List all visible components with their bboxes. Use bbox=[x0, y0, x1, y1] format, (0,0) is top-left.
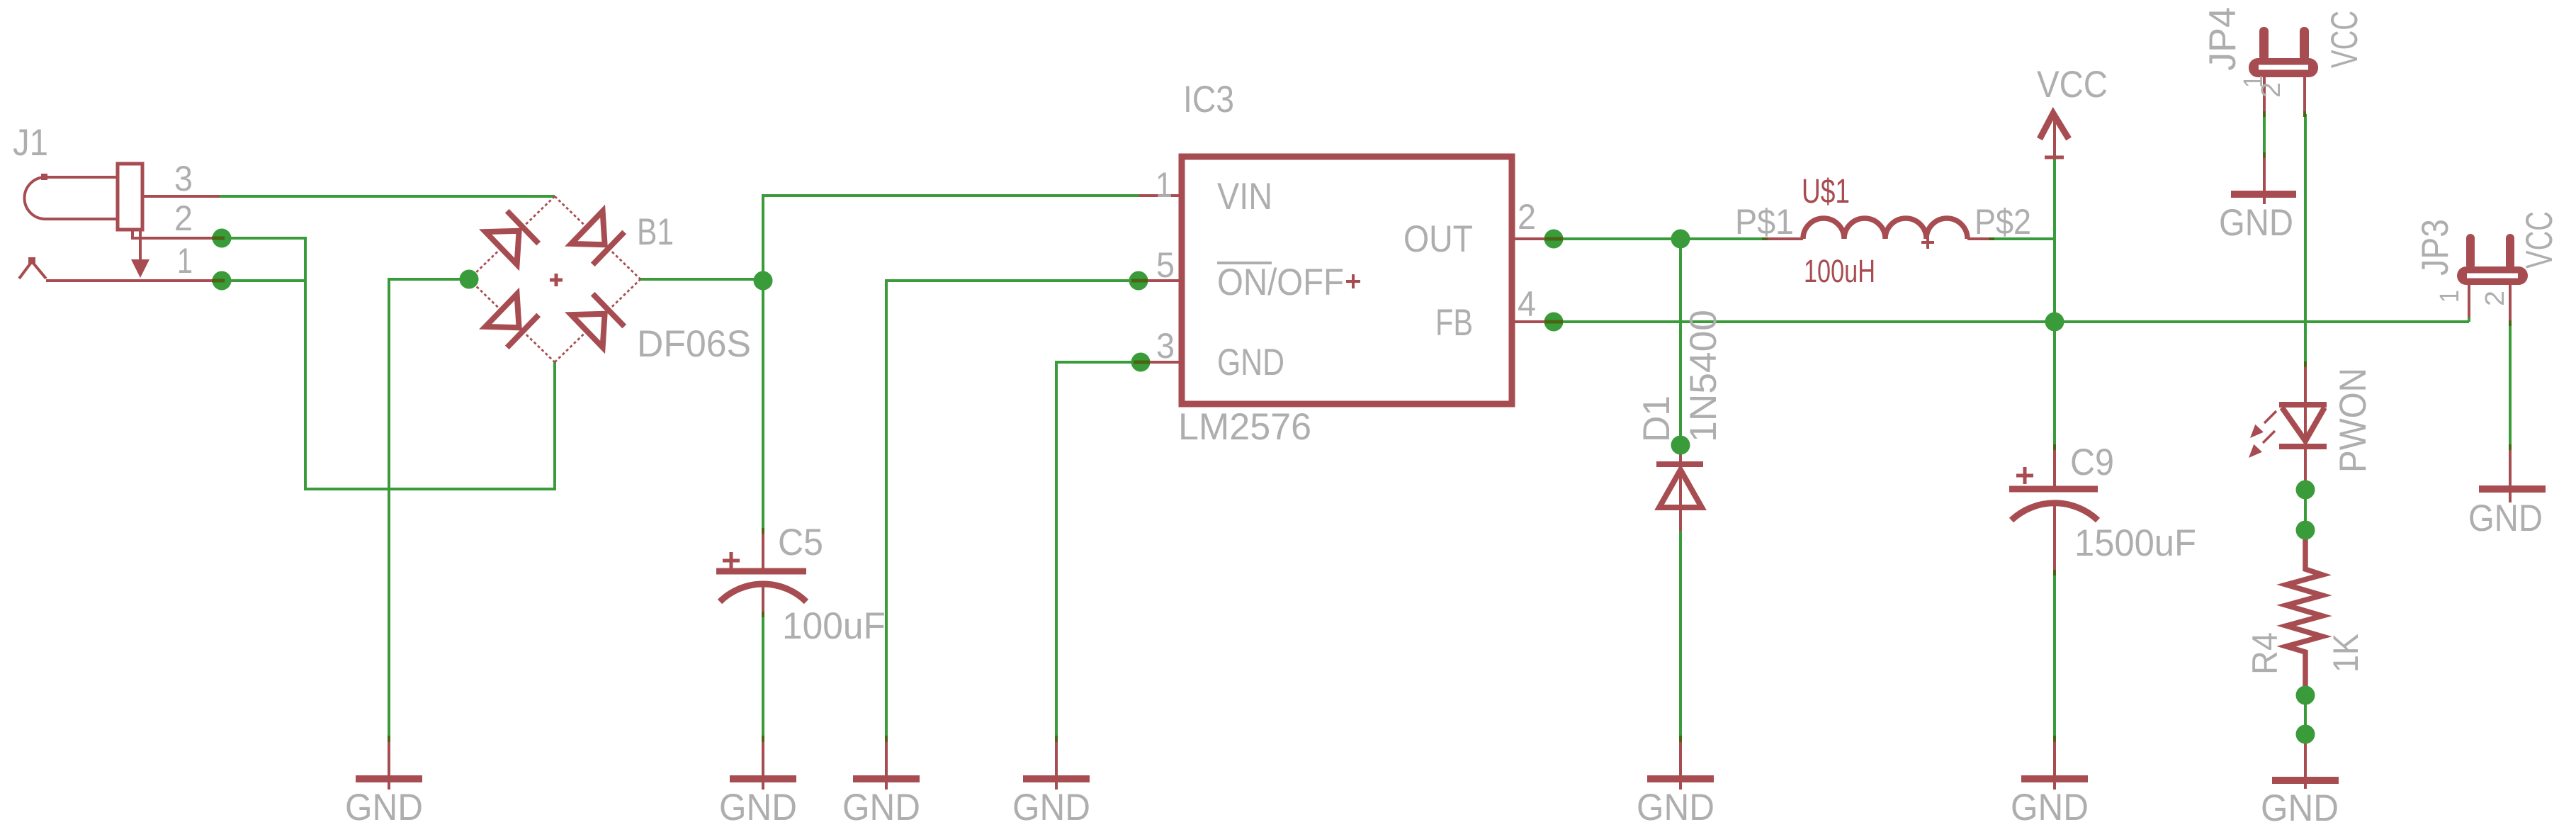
svg-text:FB: FB bbox=[1435, 302, 1473, 344]
svg-text:P$2: P$2 bbox=[1975, 202, 2031, 242]
svg-text:R4: R4 bbox=[2245, 632, 2285, 675]
svg-text:1500uF: 1500uF bbox=[2074, 522, 2196, 564]
svg-text:C9: C9 bbox=[2070, 442, 2114, 483]
svg-text:100uH: 100uH bbox=[1804, 253, 1875, 289]
svg-text:B1: B1 bbox=[637, 211, 674, 253]
svg-text:GND: GND bbox=[719, 787, 797, 828]
svg-text:JP4: JP4 bbox=[2202, 7, 2244, 71]
svg-text:2: 2 bbox=[1518, 197, 1536, 237]
svg-text:3: 3 bbox=[1156, 326, 1175, 366]
svg-text:1K: 1K bbox=[2326, 634, 2366, 673]
svg-text:VCC: VCC bbox=[2324, 11, 2366, 68]
svg-text:D1: D1 bbox=[1636, 395, 1678, 442]
svg-text:1: 1 bbox=[2435, 290, 2465, 303]
svg-text:GND: GND bbox=[345, 787, 423, 828]
svg-text:GND: GND bbox=[1637, 787, 1714, 828]
svg-text:ON/OFF: ON/OFF bbox=[1217, 262, 1344, 303]
svg-text:VIN: VIN bbox=[1217, 176, 1272, 218]
svg-text:100uF: 100uF bbox=[782, 605, 886, 647]
svg-text:4: 4 bbox=[1518, 284, 1536, 324]
svg-text:VCC: VCC bbox=[2037, 64, 2108, 106]
svg-text:1: 1 bbox=[1156, 165, 1173, 205]
svg-text:C5: C5 bbox=[778, 522, 823, 563]
svg-text:GND: GND bbox=[842, 787, 920, 828]
svg-text:LM2576: LM2576 bbox=[1178, 406, 1311, 448]
svg-text:GND: GND bbox=[2011, 787, 2089, 828]
svg-text:DF06S: DF06S bbox=[637, 323, 751, 365]
svg-text:GND: GND bbox=[1012, 787, 1090, 828]
svg-text:1: 1 bbox=[177, 241, 193, 281]
svg-text:GND: GND bbox=[2219, 202, 2293, 244]
svg-text:VCC: VCC bbox=[2519, 211, 2560, 269]
svg-text:P$1: P$1 bbox=[1735, 202, 1794, 242]
svg-text:2: 2 bbox=[174, 198, 193, 238]
svg-text:GND: GND bbox=[2261, 787, 2339, 829]
svg-text:PWON: PWON bbox=[2332, 368, 2374, 473]
svg-text:GND: GND bbox=[1217, 342, 1284, 383]
svg-text:1N5400: 1N5400 bbox=[1683, 310, 1724, 442]
svg-text:IC3: IC3 bbox=[1183, 79, 1234, 120]
svg-text:J1: J1 bbox=[13, 122, 48, 164]
svg-text:U$1: U$1 bbox=[1802, 173, 1850, 210]
svg-text:2: 2 bbox=[2480, 291, 2510, 306]
svg-text:3: 3 bbox=[174, 159, 193, 198]
svg-text:GND: GND bbox=[2468, 498, 2543, 539]
svg-text:2: 2 bbox=[2256, 82, 2286, 98]
svg-text:OUT: OUT bbox=[1403, 218, 1473, 260]
svg-text:JP3: JP3 bbox=[2414, 219, 2456, 276]
svg-text:5: 5 bbox=[1156, 245, 1175, 285]
